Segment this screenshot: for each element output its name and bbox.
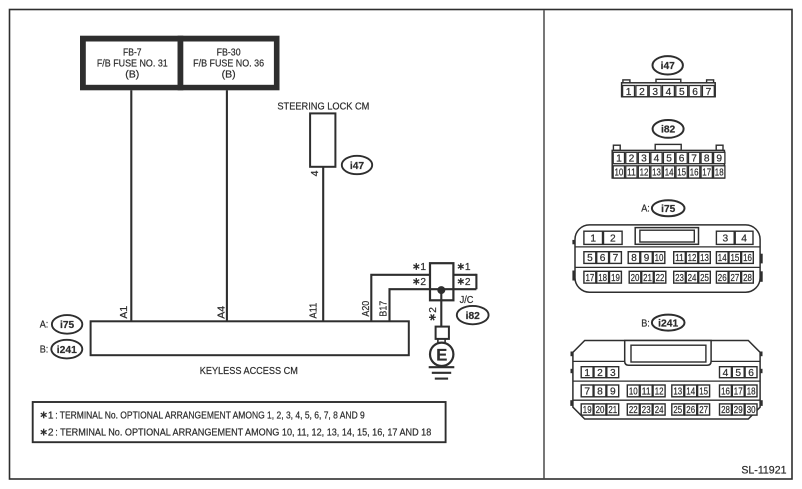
svg-text:A1: A1 bbox=[118, 306, 130, 319]
svg-text:2: 2 bbox=[420, 277, 426, 288]
svg-text:29: 29 bbox=[734, 405, 743, 416]
svg-text:26: 26 bbox=[718, 273, 727, 284]
svg-text:B:: B: bbox=[40, 343, 49, 355]
svg-text:i82: i82 bbox=[661, 125, 675, 136]
steering lock CM module bbox=[277, 101, 369, 167]
svg-text:KEYLESS ACCESS CM: KEYLESS ACCESS CM bbox=[200, 365, 298, 377]
svg-text:3: 3 bbox=[722, 234, 728, 245]
wire *1 from pin A20 to J/C bbox=[371, 275, 476, 322]
keyless access CM box bbox=[91, 321, 409, 377]
svg-text:14: 14 bbox=[718, 253, 727, 264]
svg-text:A20: A20 bbox=[360, 301, 372, 317]
svg-text:16: 16 bbox=[721, 387, 730, 398]
svg-text:27: 27 bbox=[699, 405, 708, 416]
svg-text:19: 19 bbox=[583, 405, 592, 416]
svg-text:i75: i75 bbox=[60, 320, 74, 331]
svg-text:3: 3 bbox=[641, 154, 647, 165]
svg-text:15: 15 bbox=[699, 387, 708, 398]
svg-text:9: 9 bbox=[644, 253, 650, 264]
svg-text:i82: i82 bbox=[466, 311, 480, 322]
svg-text:27: 27 bbox=[731, 273, 740, 284]
svg-text:21: 21 bbox=[643, 273, 652, 284]
ground symbol E bbox=[429, 343, 455, 379]
svg-text:8: 8 bbox=[704, 154, 710, 165]
svg-text:11: 11 bbox=[675, 253, 684, 264]
svg-text:8: 8 bbox=[597, 387, 603, 398]
label *2 right bbox=[458, 277, 471, 288]
svg-text:1: 1 bbox=[626, 87, 632, 98]
svg-text:23: 23 bbox=[675, 273, 684, 284]
connector view i47 bbox=[622, 56, 716, 98]
svg-text:5: 5 bbox=[735, 368, 741, 379]
svg-text:F/B FUSE NO. 36: F/B FUSE NO. 36 bbox=[193, 57, 264, 69]
svg-text:12: 12 bbox=[655, 387, 664, 398]
svg-text:A:: A: bbox=[641, 203, 650, 215]
svg-text:4: 4 bbox=[309, 170, 321, 176]
connector i47 oval (steering lock) bbox=[342, 156, 372, 174]
note box terminal arrangement bbox=[33, 402, 446, 442]
svg-text:1: 1 bbox=[465, 262, 471, 273]
svg-text:8: 8 bbox=[631, 253, 637, 264]
svg-text:15: 15 bbox=[731, 253, 740, 264]
svg-text:10: 10 bbox=[655, 253, 664, 264]
label *1 right bbox=[458, 262, 471, 273]
svg-text:A:: A: bbox=[40, 319, 49, 331]
svg-text:24: 24 bbox=[655, 405, 664, 416]
svg-text:6: 6 bbox=[692, 87, 698, 98]
svg-text:2: 2 bbox=[465, 277, 471, 288]
svg-text:5: 5 bbox=[587, 253, 593, 264]
svg-text:7: 7 bbox=[613, 253, 619, 264]
wire *2 right loop bbox=[475, 274, 477, 289]
svg-text:28: 28 bbox=[743, 273, 752, 284]
svg-text:2: 2 bbox=[629, 154, 635, 165]
svg-text:10: 10 bbox=[615, 168, 624, 179]
ground wire *2 bbox=[440, 289, 442, 326]
svg-text:1: 1 bbox=[590, 234, 596, 245]
wire FB-30 to pin A4 bbox=[226, 90, 228, 321]
svg-text:10: 10 bbox=[629, 387, 638, 398]
svg-text:B:: B: bbox=[641, 318, 650, 330]
svg-text:2: 2 bbox=[48, 428, 54, 439]
svg-text:: TERMINAL No. OPTIONAL ARRANG: : TERMINAL No. OPTIONAL ARRANGEMENT AMON… bbox=[55, 428, 431, 439]
svg-text:4: 4 bbox=[666, 87, 672, 98]
svg-text:25: 25 bbox=[700, 273, 709, 284]
connector view i75 (keyless A) bbox=[572, 200, 762, 292]
svg-text:i75: i75 bbox=[661, 204, 675, 215]
svg-text:15: 15 bbox=[677, 168, 686, 179]
connector view i82 bbox=[612, 120, 725, 179]
svg-text:(B): (B) bbox=[125, 69, 139, 81]
svg-text:11: 11 bbox=[642, 387, 651, 398]
svg-text:1: 1 bbox=[48, 410, 54, 421]
svg-text:SL-11921: SL-11921 bbox=[741, 464, 786, 476]
svg-text:A4: A4 bbox=[215, 306, 227, 319]
svg-text:6: 6 bbox=[679, 154, 685, 165]
svg-text:16: 16 bbox=[743, 253, 752, 264]
svg-text:11: 11 bbox=[627, 168, 636, 179]
svg-text:18: 18 bbox=[715, 168, 724, 179]
svg-text:F/B FUSE NO. 31: F/B FUSE NO. 31 bbox=[97, 57, 168, 69]
wire steering lock to pin A11 bbox=[322, 167, 324, 321]
svg-text:17: 17 bbox=[586, 273, 595, 284]
svg-text:21: 21 bbox=[608, 405, 617, 416]
svg-text:26: 26 bbox=[686, 405, 695, 416]
svg-text:18: 18 bbox=[598, 273, 607, 284]
svg-text:i241: i241 bbox=[658, 318, 678, 329]
svg-text:9: 9 bbox=[716, 154, 722, 165]
svg-text:12: 12 bbox=[640, 168, 649, 179]
svg-text:17: 17 bbox=[702, 168, 711, 179]
label *1 left bbox=[413, 262, 426, 273]
svg-text:2: 2 bbox=[610, 234, 616, 245]
svg-text:24: 24 bbox=[688, 273, 697, 284]
svg-text:3: 3 bbox=[652, 87, 658, 98]
svg-text:7: 7 bbox=[706, 87, 712, 98]
svg-text:5: 5 bbox=[679, 87, 685, 98]
svg-text:13: 13 bbox=[673, 387, 682, 398]
svg-text:19: 19 bbox=[611, 273, 620, 284]
svg-text:23: 23 bbox=[642, 405, 651, 416]
svg-text:16: 16 bbox=[690, 168, 699, 179]
svg-text:4: 4 bbox=[723, 368, 729, 379]
svg-text:1: 1 bbox=[616, 154, 622, 165]
svg-text:7: 7 bbox=[691, 154, 697, 165]
svg-text:28: 28 bbox=[721, 405, 730, 416]
svg-text:i241: i241 bbox=[57, 345, 77, 356]
svg-text:14: 14 bbox=[665, 168, 674, 179]
svg-text:25: 25 bbox=[673, 405, 682, 416]
svg-text:2: 2 bbox=[428, 307, 439, 313]
svg-text:22: 22 bbox=[629, 405, 638, 416]
svg-text:7: 7 bbox=[584, 387, 590, 398]
svg-text:12: 12 bbox=[688, 253, 697, 264]
svg-text:17: 17 bbox=[734, 387, 743, 398]
svg-text:20: 20 bbox=[596, 405, 605, 416]
svg-text:A11: A11 bbox=[308, 303, 320, 319]
svg-text:13: 13 bbox=[700, 253, 709, 264]
svg-text:3: 3 bbox=[610, 368, 616, 379]
svg-text:14: 14 bbox=[686, 387, 695, 398]
wire FB-7 to pin A1 bbox=[130, 90, 132, 321]
fuse box FB-7 bbox=[80, 36, 183, 91]
svg-text:6: 6 bbox=[748, 368, 754, 379]
svg-text:STEERING LOCK CM: STEERING LOCK CM bbox=[277, 101, 369, 113]
svg-text:9: 9 bbox=[610, 387, 616, 398]
wire *2 from pin B17 through J/C bbox=[390, 289, 477, 321]
svg-text:5: 5 bbox=[666, 154, 672, 165]
connector i75 oval (keyless A) bbox=[40, 315, 83, 334]
svg-text:i47: i47 bbox=[661, 61, 675, 72]
svg-text:J/C: J/C bbox=[460, 294, 474, 306]
connector i82 oval (J/C) bbox=[457, 306, 489, 324]
svg-text:(B): (B) bbox=[222, 69, 236, 81]
svg-text:22: 22 bbox=[656, 273, 665, 284]
svg-text:2: 2 bbox=[639, 87, 645, 98]
junction connector J/C i82 body bbox=[430, 263, 453, 300]
fuse box FB-30 bbox=[178, 36, 280, 91]
connector view i241 (keyless B) bbox=[570, 315, 762, 419]
svg-text:B17: B17 bbox=[378, 301, 390, 317]
svg-text:1: 1 bbox=[420, 262, 426, 273]
svg-text:i47: i47 bbox=[350, 161, 364, 172]
ground neck bbox=[437, 339, 439, 343]
svg-text:E: E bbox=[436, 346, 447, 364]
label *2 (ground wire) bbox=[428, 307, 439, 321]
svg-text:20: 20 bbox=[631, 273, 640, 284]
svg-text:6: 6 bbox=[600, 253, 606, 264]
svg-text:30: 30 bbox=[747, 405, 756, 416]
svg-text:13: 13 bbox=[652, 168, 661, 179]
svg-text:: TERMINAL No. OPTIONAL ARRANG: : TERMINAL No. OPTIONAL ARRANGEMENT AMON… bbox=[55, 410, 365, 421]
svg-text:2: 2 bbox=[597, 368, 603, 379]
svg-text:18: 18 bbox=[747, 387, 756, 398]
connector i241 oval (keyless B) bbox=[40, 340, 83, 359]
ground connector square bbox=[436, 327, 449, 339]
label *2 left bbox=[413, 277, 426, 288]
svg-text:4: 4 bbox=[654, 154, 660, 165]
svg-text:4: 4 bbox=[741, 234, 747, 245]
junction dot bbox=[437, 286, 445, 294]
svg-text:1: 1 bbox=[584, 368, 590, 379]
